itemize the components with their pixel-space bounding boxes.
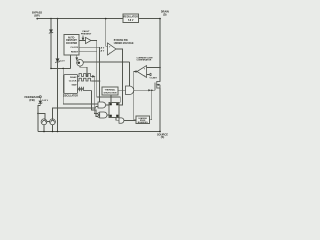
comparator U9 current limit	[137, 66, 147, 78]
diode Z1 (current source on BP line)	[50, 19, 52, 30]
gate G3 AND output	[119, 118, 124, 123]
wire FB clamp to rail	[38, 104, 40, 132]
wire clock input to auto-restart	[79, 46, 100, 48]
svg-text:(FB): (FB)	[29, 98, 34, 102]
transistor Q3 mirror left	[41, 119, 47, 125]
wire mirror base tie	[47, 120, 50, 122]
node SOURCE (S) pin label	[157, 132, 168, 139]
wire latch to G3	[110, 95, 112, 103]
node junction BP/Z1	[50, 18, 52, 20]
svg-text:BYPASS PIN: BYPASS PIN	[114, 39, 128, 42]
node junction drain rail top	[159, 18, 161, 20]
svg-text:CLOCK: CLOCK	[70, 47, 78, 49]
svg-text:(BP): (BP)	[34, 14, 39, 17]
svg-text:OSCILLATOR: OSCILLATOR	[63, 95, 78, 98]
svg-text:(S): (S)	[161, 135, 165, 139]
wire FB branch to mirror	[38, 113, 45, 118]
wire C1 output to driver	[83, 61, 129, 63]
svg-text:1.63 V: 1.63 V	[42, 100, 49, 102]
latch U7 box with pins	[109, 103, 119, 118]
svg-text:BLANKING: BLANKING	[138, 121, 149, 124]
gate C1 enable circle	[77, 60, 84, 67]
thermal shutdown U6 box	[102, 87, 118, 95]
wire MOSFET source down	[159, 88, 161, 132]
wire auto-restart to buffer	[79, 40, 86, 42]
svg-text:5.8 V: 5.8 V	[128, 20, 134, 22]
svg-text:RESTART: RESTART	[66, 39, 77, 42]
transistor Q4 mirror right	[50, 119, 56, 125]
svg-text:-: -	[109, 51, 110, 54]
transistor Q1 MOSFET	[155, 19, 160, 91]
wire BP rail left segment	[37, 18, 123, 20]
wire thermal to driver gate	[118, 89, 126, 91]
gate G2 AND inverted inputs	[100, 112, 107, 118]
regulator U1 box 5.8V	[123, 14, 139, 23]
node BYPASS (BP) pin label	[32, 12, 42, 18]
svg-text:COUNTER: COUNTER	[66, 43, 78, 45]
node DRAIN (D) pin label	[161, 11, 169, 17]
wire auto-restart to C1	[76, 55, 78, 59]
node CURRENT LIMIT COMPARATOR label	[137, 57, 154, 61]
wire bottom source rail	[38, 131, 160, 133]
wire DMAX output square wave	[78, 74, 93, 77]
wire G2 to latch	[107, 114, 109, 116]
svg-text:DMAX: DMAX	[70, 76, 77, 79]
svg-text:REGULATOR: REGULATOR	[124, 16, 139, 19]
svg-text:V ILIMIT: V ILIMIT	[150, 77, 158, 79]
svg-text:COMPARATOR: COMPARATOR	[137, 59, 152, 62]
node junction drain sense	[159, 67, 161, 69]
wire clock vertical	[99, 47, 101, 102]
diode Z3 feedback clamp 1.63V	[39, 101, 41, 103]
diode Z2 zener 6.4V	[57, 19, 59, 59]
node FB pin terminal	[39, 96, 41, 98]
wire H1 bp-line to logic	[51, 67, 71, 69]
node VILIMIT reference	[149, 73, 151, 76]
wire CL output	[134, 72, 137, 120]
node junction FB branch	[37, 113, 39, 115]
wire buffer output / fault line	[91, 41, 120, 104]
wire BP rail to UV comparator	[106, 19, 108, 47]
wire mirror output to logic	[53, 107, 99, 119]
wire fault present arrow	[82, 36, 84, 39]
wire reset input to auto-restart	[79, 51, 97, 53]
auto-restart counter U2	[64, 35, 79, 55]
wire FB pin down	[39, 98, 41, 101]
wire CL comparator vilimit input	[147, 74, 150, 76]
leading edge blanking U8 box	[136, 116, 150, 124]
wire BP rail right segment (regulator to drain rail)	[139, 18, 161, 20]
svg-text:6.4 V: 6.4 V	[60, 59, 66, 62]
wire drain rail vertical	[159, 19, 161, 82]
node junction BP/Z2	[57, 18, 59, 20]
svg-text:THERMAL: THERMAL	[105, 89, 116, 92]
node BYPASS PIN UNDER-VOLTAGE label	[114, 39, 134, 45]
svg-text:PRESENT: PRESENT	[81, 34, 92, 36]
svg-text:UNDER-VOLTAGE: UNDER-VOLTAGE	[114, 42, 134, 45]
svg-text:5.8 V: 5.8 V	[99, 48, 105, 50]
node BP pin terminal	[36, 18, 38, 20]
wire UV comparator output	[116, 49, 123, 105]
wire SAW output sawtooth	[78, 88, 92, 91]
svg-text:SHUTDOWN: SHUTDOWN	[104, 92, 117, 94]
node junction UV/enable line	[122, 61, 124, 63]
wire gate drive to LEB tap	[150, 90, 152, 119]
wire C1 loop	[80, 66, 87, 76]
wire mirror emitters to rail	[44, 125, 53, 132]
buffer U3	[86, 37, 92, 43]
svg-text:AUTO-: AUTO-	[68, 37, 75, 40]
wire CL comparator sense input	[147, 67, 161, 69]
node FAULT PRESENT label	[81, 30, 92, 36]
svg-text:-: -	[144, 74, 145, 77]
svg-text:(D): (D)	[163, 13, 167, 16]
wire driver output to MOSFET gate	[134, 89, 155, 91]
wire CLOCK output square wave	[78, 78, 93, 81]
oscillator U5 box	[63, 75, 78, 98]
gate G1 AND (pwm)	[98, 102, 106, 108]
wire G3 to LEB	[124, 120, 136, 122]
comparator U4 bypass pin under-voltage	[99, 43, 116, 55]
svg-text:CLOCK: CLOCK	[69, 81, 77, 83]
wire clock distribution down left of oscillator	[63, 68, 98, 104]
wire auto-restart bottom to H1	[70, 55, 72, 68]
wire G1 to latch	[106, 104, 109, 106]
gate G4 driver AND	[126, 86, 134, 95]
node FEEDBACK (FB) pin label	[25, 95, 40, 102]
svg-text:4.8 V: 4.8 V	[99, 49, 105, 52]
svg-text:RESET: RESET	[71, 52, 79, 54]
